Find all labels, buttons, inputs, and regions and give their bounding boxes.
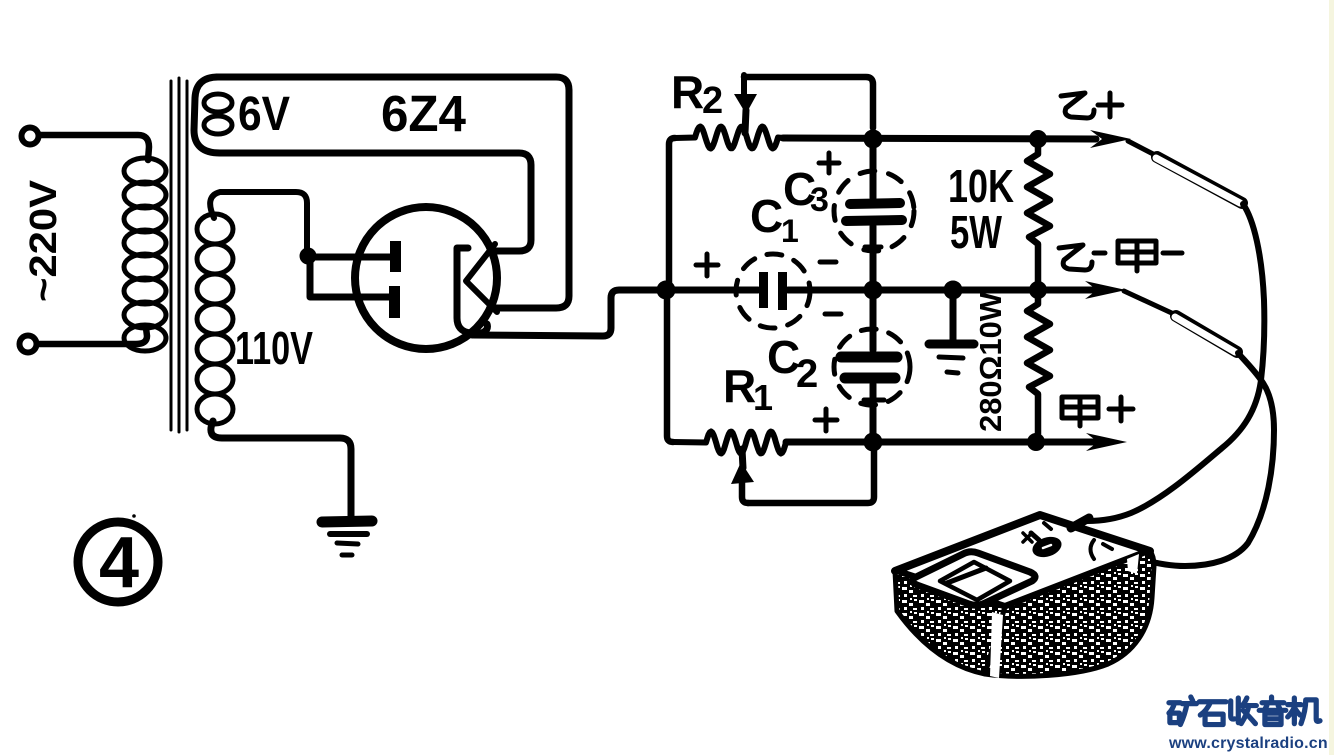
junction A+ / C2 bbox=[864, 433, 883, 452]
meter tick bbox=[1044, 523, 1051, 529]
tube 6Z4 envelope bbox=[355, 207, 497, 349]
svg-text:2: 2 bbox=[702, 80, 723, 122]
svg-text:1: 1 bbox=[753, 377, 773, 418]
probe lead B+ bbox=[1128, 141, 1157, 156]
wire transformer 110V bottom lead bbox=[211, 421, 351, 517]
meter window outer bbox=[912, 552, 1035, 606]
wire node A down bbox=[667, 297, 673, 442]
minus sign B- output bbox=[1094, 251, 1105, 256]
svg-text:280Ω10W: 280Ω10W bbox=[973, 291, 1008, 432]
resistor R2 bbox=[675, 127, 783, 149]
ground transformer bbox=[322, 521, 372, 555]
shou bbox=[1231, 698, 1257, 724]
arrowhead B+ bbox=[1090, 130, 1131, 148]
arrowhead main bbox=[1085, 281, 1126, 299]
minus sign A- output bbox=[1163, 251, 1182, 256]
wire 110V top lead to plates bbox=[210, 192, 307, 250]
arrowhead A+ bbox=[1086, 433, 1127, 451]
junction main / ground2 bbox=[944, 281, 963, 300]
wire node A up to B+ line bbox=[669, 138, 675, 290]
svg-text:5W: 5W bbox=[950, 206, 1002, 258]
watermark bbox=[1169, 697, 1320, 725]
probe lead mid bbox=[1124, 291, 1176, 315]
junction A+ / 280 bbox=[1027, 433, 1045, 451]
multimeter leg highlight bbox=[990, 612, 1003, 678]
node label A- (jia-) bbox=[1118, 241, 1156, 271]
capacitor C3 bbox=[870, 147, 877, 198]
R2 wiper arm bbox=[741, 75, 747, 97]
svg-text:C: C bbox=[750, 190, 783, 242]
junction B+ / C3 bbox=[864, 130, 883, 149]
wire R1 wiper to line bbox=[748, 450, 874, 503]
svg-text:~220V: ~220V bbox=[23, 179, 65, 302]
svg-text:6V: 6V bbox=[238, 88, 290, 141]
terminal bottom-left bbox=[20, 336, 37, 353]
transformer primary winding bbox=[124, 158, 166, 351]
transformer 110V winding bbox=[197, 214, 233, 424]
meter x mark bbox=[1023, 533, 1032, 542]
polarity minus C2 bbox=[825, 312, 841, 317]
node label B- (yi-) bbox=[1059, 245, 1092, 270]
multimeter left face bbox=[895, 571, 1005, 674]
svg-text:3: 3 bbox=[810, 181, 829, 219]
wire B+ line bbox=[783, 138, 1096, 139]
probe body B+ bbox=[1157, 157, 1242, 203]
node A bbox=[657, 281, 676, 300]
meter knob bbox=[1030, 533, 1064, 560]
svg-text:110V: 110V bbox=[235, 322, 313, 374]
wire meter lead A bbox=[1087, 204, 1264, 521]
meter window inner bbox=[940, 562, 1010, 600]
svg-text:R: R bbox=[723, 360, 756, 412]
svg-text:10K: 10K bbox=[948, 160, 1014, 212]
junction main / C2 bbox=[864, 281, 883, 300]
meter jack arc bbox=[1091, 540, 1095, 559]
svg-text:1: 1 bbox=[781, 213, 799, 249]
polarity plus C1 bbox=[696, 254, 718, 276]
ji bbox=[1288, 698, 1320, 724]
svg-text:6Z4: 6Z4 bbox=[381, 85, 467, 142]
polarity plus C3 bbox=[819, 153, 839, 173]
figure number circle bbox=[78, 522, 158, 602]
wire primary bottom lead bbox=[37, 328, 147, 344]
transformer core bbox=[171, 78, 187, 432]
ground symbol main bbox=[950, 299, 957, 341]
label capacitor C2 bbox=[767, 331, 818, 396]
junction B+ / 10K bbox=[1029, 130, 1047, 148]
label resistor R2 bbox=[671, 66, 723, 122]
resistor R1 bbox=[673, 432, 790, 454]
multimeter top face bbox=[895, 515, 1150, 607]
svg-text:R: R bbox=[671, 66, 704, 118]
resistor 10K 5W bbox=[1027, 147, 1050, 282]
meter plug bbox=[1071, 518, 1089, 528]
svg-text:4: 4 bbox=[99, 523, 139, 603]
wire meter lead B bbox=[1115, 353, 1274, 566]
label resistor R1 bbox=[723, 360, 773, 418]
plus sign A+ output bbox=[1109, 397, 1133, 421]
wire R2 wiper to line bbox=[744, 77, 873, 128]
wire filament inner loop bbox=[220, 153, 531, 251]
tube cathode arrow bbox=[466, 244, 497, 312]
value label 280 ohm 10W bbox=[973, 291, 1008, 432]
meter needle bbox=[947, 568, 986, 583]
resistor 280ohm bbox=[1027, 298, 1050, 434]
polarity plus C2 bbox=[815, 409, 837, 431]
multimeter right face bbox=[985, 551, 1154, 676]
wire primary top lead bbox=[39, 135, 149, 160]
capacitor C1 bbox=[675, 287, 758, 294]
wire filament outer loop bbox=[194, 77, 569, 308]
tube cathode bbox=[457, 248, 487, 333]
shi bbox=[1199, 702, 1226, 725]
tube anode plate lower bbox=[389, 286, 400, 318]
R1 wiper arm bbox=[731, 462, 754, 484]
node label B+ (yi+) bbox=[1061, 93, 1094, 118]
junction main / 10K bbox=[1029, 281, 1047, 299]
label ~220V mains bbox=[23, 179, 65, 302]
wire plate leads bbox=[308, 256, 391, 297]
capacitor C2 bbox=[870, 298, 877, 350]
probe body mid bbox=[1176, 316, 1237, 352]
scan speck bbox=[132, 514, 136, 518]
node label A+ (jia+) bbox=[1062, 397, 1098, 426]
label capacitor C3 bbox=[783, 163, 829, 219]
yin bbox=[1259, 697, 1286, 725]
plus sign B+ output bbox=[1098, 93, 1122, 117]
polarity minus C1 bbox=[820, 260, 836, 265]
node plate junction bbox=[300, 248, 317, 265]
wire tube output to node A bbox=[472, 290, 660, 336]
svg-text:www.crystalradio.cn: www.crystalradio.cn bbox=[1168, 735, 1328, 752]
tube anode plate upper bbox=[390, 241, 401, 272]
terminal top-left bbox=[22, 128, 39, 145]
wire A+ line bbox=[786, 439, 1096, 446]
transformer 6V winding bbox=[204, 94, 232, 134]
kuang bbox=[1169, 697, 1197, 725]
label capacitor C1 bbox=[750, 190, 799, 249]
svg-text:2: 2 bbox=[796, 352, 818, 396]
